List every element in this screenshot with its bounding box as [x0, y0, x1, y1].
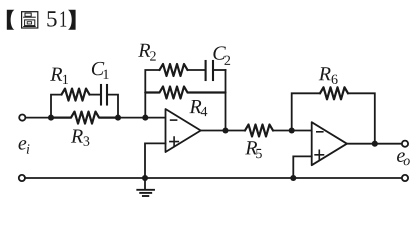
R6 feedback left rail [292, 93, 320, 130]
resistor R3 [51, 112, 118, 124]
wire C1 to branch end, down to node B [107, 95, 118, 118]
title glyph 圖 (drawn) [22, 12, 38, 28]
resistor R4 branch [145, 87, 225, 99]
wire C2 to right rail [213, 69, 226, 71]
op-amp U2 [312, 122, 347, 165]
label ei [19, 140, 27, 150]
label R5 [245, 141, 257, 154]
U1 minus sign [171, 119, 177, 121]
title bracket right 】 [68, 10, 76, 30]
label R1 [50, 68, 62, 81]
R6 right rail down [348, 93, 375, 143]
input terminal ei top [19, 115, 25, 121]
title text 51 [47, 11, 66, 26]
node F [372, 141, 378, 147]
U1 non-inverting input wire to ground rail [145, 143, 166, 178]
U1 output wire [201, 130, 245, 132]
op-amp U1 [166, 109, 201, 152]
feedback left rail up [145, 70, 159, 118]
bottom rail wire [25, 177, 402, 179]
capacitor C2 [205, 61, 207, 80]
label R2 [138, 44, 150, 57]
wire input to node A [26, 117, 51, 119]
resistor R6 [320, 87, 348, 99]
resistor R5 [245, 125, 273, 137]
bottom terminal left [19, 175, 25, 181]
wire node A up to R1 branch [51, 95, 62, 118]
node H [290, 175, 296, 181]
ground symbol [144, 178, 146, 189]
resistor R1 [62, 89, 90, 101]
wire node B to node C to op-amp U1 inverting input [118, 117, 166, 119]
node B [115, 115, 121, 121]
title bracket left 【 [7, 10, 15, 30]
node E [289, 127, 295, 133]
feedback right rail down [225, 70, 227, 131]
U2 plus sign [315, 150, 323, 159]
U1 plus sign [170, 137, 178, 146]
label C1 [92, 62, 104, 75]
U2 output wire [347, 143, 402, 145]
label C2 [213, 46, 225, 59]
label eo [397, 152, 405, 162]
U2 minus sign [317, 131, 323, 133]
wire R2 to C2 [188, 69, 206, 71]
node G ground tap [142, 175, 148, 181]
bottom terminal right [402, 175, 408, 181]
wire R1 to C1 [90, 94, 102, 96]
capacitor C1 [100, 85, 102, 105]
output terminal eo top [402, 141, 408, 147]
U2 non-inverting input wire down to rail [293, 156, 311, 178]
label R3 [71, 130, 83, 143]
wire R5 to op-amp U2 [273, 130, 312, 132]
label R4 [189, 100, 201, 113]
label R6 [319, 67, 331, 80]
node D [222, 127, 228, 133]
node A [48, 115, 54, 121]
node C [142, 115, 148, 121]
resistor R2 [160, 64, 188, 76]
